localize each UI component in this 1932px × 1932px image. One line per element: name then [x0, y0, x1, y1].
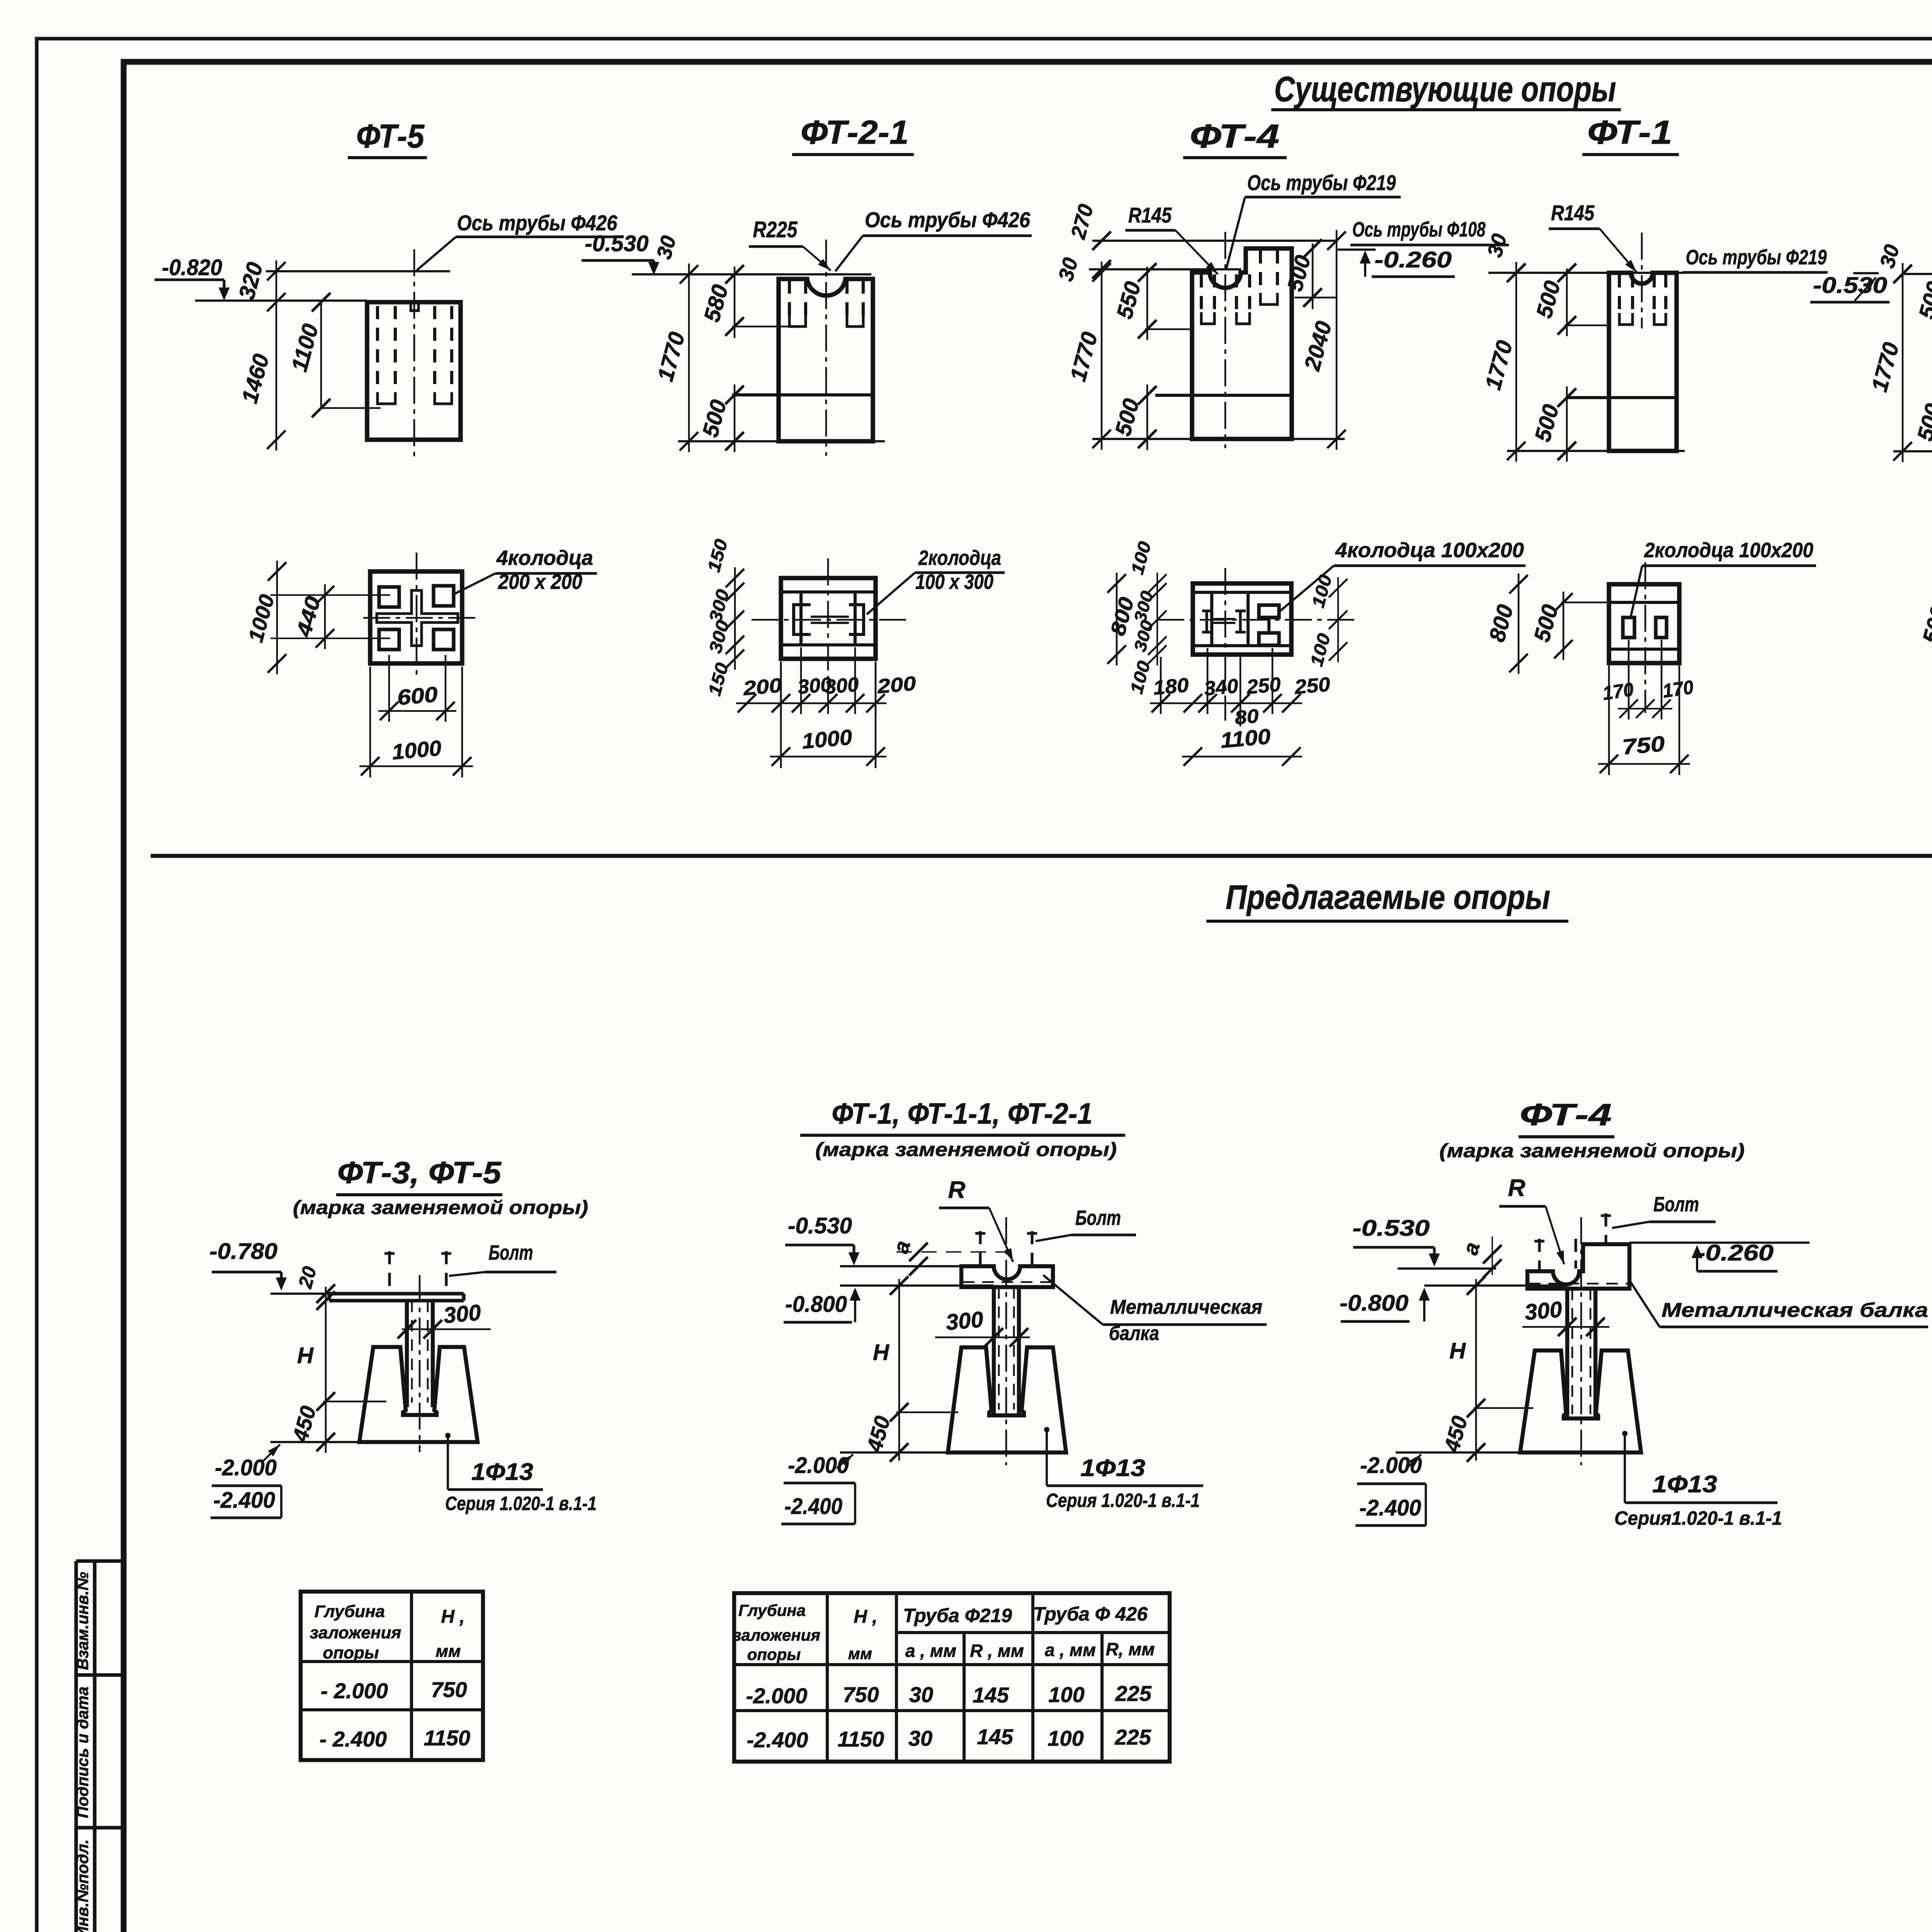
svg-text:а , мм: а , мм	[1045, 1640, 1096, 1660]
detail 1: foundation trapezoid	[359, 1347, 478, 1442]
svg-text:Ось трубы Ф219: Ось трубы Ф219	[1247, 170, 1396, 195]
svg-text:R225: R225	[753, 217, 798, 242]
svg-text:Труба Ф 426: Труба Ф 426	[1033, 1603, 1148, 1625]
FT-1 elevation: center line	[1641, 233, 1643, 328]
svg-text:-0.530: -0.530	[1813, 273, 1887, 298]
FT-2-1 elevation: anchor bolts (dashed)	[789, 281, 863, 327]
svg-text:2колодца 100х200: 2колодца 100х200	[1644, 539, 1813, 562]
svg-text:4колодца: 4колодца	[496, 546, 593, 570]
detail 2: foundation trapezoid	[948, 1347, 1066, 1452]
svg-text:Металлическая: Металлическая	[1110, 1296, 1262, 1318]
detail 3: center line	[1580, 1217, 1582, 1465]
FT-5 plan: slab outline	[370, 571, 462, 663]
svg-text:225: 225	[1114, 1725, 1151, 1749]
svg-text:250: 250	[1293, 673, 1331, 699]
svg-text:-2.400: -2.400	[747, 1728, 808, 1752]
svg-text:-0.260: -0.260	[1696, 1240, 1774, 1265]
detail 2: column top extension	[840, 1284, 994, 1287]
svg-text:-0.530: -0.530	[788, 1213, 852, 1238]
FT-2-1 plan: center lines	[827, 558, 829, 680]
svg-text:мм: мм	[435, 1642, 461, 1661]
svg-text:Глубина: Глубина	[315, 1602, 385, 1621]
svg-text:Н ,: Н ,	[441, 1607, 464, 1627]
FT-5 plan: well axis lines	[270, 594, 390, 596]
svg-text:ФТ-3, ФТ-5: ФТ-3, ФТ-5	[337, 1155, 502, 1190]
FT-4 plan: center lines	[1157, 619, 1354, 621]
detail 1: center line	[419, 1275, 421, 1452]
FT-5 elevation: foundation outline	[367, 302, 461, 440]
svg-text:ФТ-4: ФТ-4	[1520, 1097, 1612, 1132]
svg-text:-2.000: -2.000	[215, 1455, 277, 1480]
FT-1 plan: slab outline	[1609, 584, 1679, 663]
svg-text:1Ф13: 1Ф13	[471, 1459, 533, 1485]
svg-text:Ось трубы Ф108: Ось трубы Ф108	[1352, 218, 1486, 241]
svg-text:(марка заменяемой опоры): (марка заменяемой опоры)	[1439, 1140, 1745, 1162]
svg-text:ФТ-1: ФТ-1	[1587, 114, 1672, 151]
svg-text:170: 170	[1601, 679, 1635, 704]
detail 2: rebar mark 1Ф13	[1044, 1427, 1049, 1432]
svg-text:Болт: Болт	[489, 1241, 533, 1264]
detail 1: rebar mark 1Ф13	[445, 1433, 451, 1438]
svg-text:а , мм: а , мм	[905, 1641, 956, 1661]
detail 3: level line -0.260	[1629, 1242, 1810, 1244]
svg-text:Инв.№подл.: Инв.№подл.	[73, 1839, 92, 1932]
table 1 (FT-3, FT-5): frame	[301, 1592, 483, 1760]
svg-text:R: R	[948, 1177, 966, 1203]
svg-text:750: 750	[1621, 731, 1666, 759]
FT-4 plan: inner horizontal edges	[1193, 591, 1291, 594]
svg-text:-0.800: -0.800	[1340, 1291, 1408, 1316]
FT-2-1 elevation: dim 580 / 500	[734, 267, 736, 338]
FT-2-1 plan: dims left 150/300/300/150	[734, 567, 736, 670]
detail 3: level marks -2.000 / -2.400	[1406, 1454, 1421, 1468]
svg-text:340: 340	[1203, 675, 1239, 700]
FT-1 plan: center line	[1645, 562, 1646, 713]
detail 2: dim 300	[935, 1337, 1030, 1338]
FT-1-1 elevation: pipe axis / ground line	[1903, 273, 1932, 275]
svg-text:мм: мм	[848, 1645, 872, 1663]
FT-4 elevation: short level line	[1338, 248, 1376, 251]
FT-4 elevation: foundation outline stepped with notch	[1192, 248, 1292, 439]
detail 3: metal beam stepped with notch	[1527, 1244, 1629, 1289]
svg-text:30: 30	[909, 1682, 933, 1707]
svg-text:-2.000: -2.000	[1360, 1453, 1422, 1478]
FT-1 elevation: foundation outline with notch	[1609, 273, 1677, 451]
FT-1 elevation: dim 1770	[1515, 262, 1517, 462]
svg-text:300: 300	[442, 1300, 482, 1328]
FT-5 plan: center lines	[416, 553, 418, 675]
svg-text:600: 600	[396, 682, 439, 710]
FT-5 elevation: center line	[413, 249, 415, 460]
FT-2-1 elevation: footing top line	[732, 393, 873, 396]
detail 3: foundation trapezoid	[1520, 1350, 1641, 1452]
svg-text:Подпись и дата: Подпись и дата	[73, 1687, 92, 1818]
FT-4 elevation: dim 2040	[1336, 230, 1338, 450]
svg-text:H: H	[873, 1340, 889, 1365]
FT-2-1 plan: bottom dims 200/300/300/200	[780, 662, 782, 714]
FT-2-1 elevation: dashed pipe arc in notch	[810, 286, 843, 295]
FT-2-1 plan: dim 1000 bottom	[780, 662, 782, 768]
FT-2-1 elevation: pipe axis line	[632, 273, 871, 276]
svg-text:Существующие опоры: Существующие опоры	[1274, 70, 1616, 109]
FT-5 elevation: anchor bolts (dashed)	[378, 306, 452, 404]
FT-5 elevation: ground line	[195, 299, 367, 302]
svg-text:Ось трубы Ф426: Ось трубы Ф426	[865, 207, 1031, 232]
detail 1: anchor bolts above plate	[388, 1251, 391, 1294]
detail 1: socket inner lines	[400, 1347, 406, 1410]
FT-2-1 elevation: dim 1770	[688, 264, 690, 452]
FT-1 plan: dim 500	[1563, 592, 1565, 660]
detail 1: level marks -2.000 / -2.400	[263, 1444, 280, 1461]
FT-5 elevation: pipe axis line	[266, 270, 450, 272]
FT-2-1 plan: inner vertical edges	[799, 592, 803, 645]
horizontal divider between sections	[151, 854, 1932, 858]
svg-text:(марка заменяемой опоры): (марка заменяемой опоры)	[815, 1139, 1117, 1160]
svg-text:ФТ-2-1: ФТ-2-1	[801, 114, 909, 151]
FT-4 plan: inner vertical edges	[1210, 592, 1213, 646]
FT-4 elevation: center line	[1225, 232, 1226, 448]
svg-text:Ось трубы Ф219: Ось трубы Ф219	[1686, 246, 1827, 269]
FT-1 plan: inner horizontal edges	[1609, 601, 1679, 604]
svg-text:Предлагаемые опоры: Предлагаемые опоры	[1226, 878, 1550, 916]
FT-4 plan: bottom dims 180/340/250/250 + 80	[1160, 657, 1162, 714]
svg-text:-2.400: -2.400	[784, 1494, 842, 1519]
svg-text:300: 300	[945, 1307, 984, 1335]
svg-text:-2.000: -2.000	[788, 1453, 849, 1478]
detail 3: column below beam	[1565, 1289, 1569, 1419]
detail 2: level line -0.530	[840, 1265, 962, 1267]
svg-text:опоры: опоры	[323, 1643, 379, 1662]
svg-text:ФТ-1, ФТ-1-1, ФТ-2-1: ФТ-1, ФТ-1-1, ФТ-2-1	[832, 1097, 1093, 1130]
svg-text:Серия 1.020-1 в.1-1: Серия 1.020-1 в.1-1	[445, 1493, 597, 1514]
detail 2: bottom level line	[840, 1451, 948, 1454]
FT-2-1 plan: anchor bar between wells	[811, 616, 849, 618]
svg-text:4колодца 100х200: 4колодца 100х200	[1335, 539, 1524, 562]
detail 3: socket inner lines	[1561, 1350, 1566, 1413]
detail 1: top level line	[270, 1293, 336, 1295]
detail 3: dim 300	[1522, 1326, 1609, 1328]
FT-1-1 elevation: dim 1770	[1902, 263, 1904, 462]
FT-2-1 elevation: center line	[825, 240, 827, 456]
FT-1-1 elevation: bottom extension line	[1893, 450, 1932, 452]
FT-4 elevation: ground level line	[1089, 268, 1241, 270]
svg-text:Металлическая балка: Металлическая балка	[1662, 1299, 1928, 1321]
FT-4 elevation: dim 1770 left	[1101, 262, 1103, 450]
FT-1 plan: dim 800 left	[1518, 573, 1520, 674]
svg-text:-2.400: -2.400	[1359, 1495, 1421, 1520]
detail 2: socket inner lines	[986, 1347, 992, 1410]
FT-2-1 plan: inner horizontal edges	[781, 590, 876, 594]
FT-4 elevation: upper axis line	[1092, 240, 1338, 242]
FT-4 plan: bolt wells right (100x200)	[1259, 605, 1279, 617]
svg-text:180: 180	[1152, 674, 1190, 699]
detail 3: rebar mark 1Ф13	[1622, 1431, 1628, 1436]
detail 1: dim 300	[402, 1328, 491, 1330]
FT-2-1 elevation: bottom extension line	[678, 440, 885, 442]
FT-1 elevation: anchor bolts (dashed)	[1619, 274, 1666, 325]
FT-4 elevation: anchor bolts (dashed)	[1201, 250, 1277, 324]
svg-text:H: H	[297, 1343, 314, 1368]
svg-text:100: 100	[1048, 1682, 1084, 1707]
FT-1 plan: dims 170/170	[1628, 640, 1630, 719]
svg-text:ФТ-5: ФТ-5	[356, 118, 425, 155]
svg-text:Глубина: Глубина	[738, 1601, 806, 1619]
svg-text:R, мм: R, мм	[1106, 1639, 1155, 1659]
svg-text:- 2.400: - 2.400	[320, 1727, 387, 1751]
svg-text:-0.530: -0.530	[585, 231, 649, 256]
FT-2-1 plan: slab outline	[781, 578, 876, 659]
svg-text:1100: 1100	[1219, 724, 1272, 753]
FT-5 elevation: dim 1100	[320, 302, 322, 408]
FT-4 plan: I-beam stubs left	[1202, 611, 1212, 632]
detail 2: anchor bolt pins	[979, 1231, 982, 1266]
left stamp column boxes	[76, 1561, 124, 1932]
FT-2-1 plan: bolt wells 100x300 (brackets)	[794, 605, 811, 634]
svg-text:1150: 1150	[838, 1727, 884, 1751]
FT-4 elevation: bottom extension line	[1092, 438, 1345, 440]
svg-text:1000: 1000	[801, 725, 853, 753]
detail 2: level marks -2.000 / -2.400	[837, 1454, 853, 1468]
svg-text:225: 225	[1115, 1681, 1151, 1706]
svg-text:-0.780: -0.780	[209, 1239, 277, 1264]
svg-text:R145: R145	[1128, 203, 1172, 227]
svg-text:300: 300	[1524, 1297, 1563, 1325]
detail 3: level line -0.530	[1398, 1267, 1496, 1270]
FT-4 plan: dim 1100 bottom	[1182, 756, 1302, 758]
svg-text:- 2.000: - 2.000	[321, 1679, 388, 1703]
svg-text:1Ф13: 1Ф13	[1080, 1455, 1145, 1481]
FT-5 plan: cross anchor plate	[377, 590, 458, 646]
svg-text:заложения: заложения	[310, 1623, 401, 1642]
FT-4 plan: dim 800 far left	[1116, 573, 1118, 665]
FT-1 elevation: pipe axis / ground line	[1488, 272, 1685, 274]
svg-text:ФТ-4: ФТ-4	[1190, 118, 1279, 155]
svg-text:200: 200	[742, 674, 783, 700]
FT-1 plan: bolt wells 100x200	[1623, 617, 1634, 638]
FT-5 elevation: recess square on top	[411, 302, 418, 311]
FT-5 elevation: dim 320 / 1460	[276, 260, 277, 451]
svg-text:(марка заменяемой опоры): (марка заменяемой опоры)	[293, 1197, 588, 1218]
FT-4 plan: slab outline	[1193, 583, 1291, 655]
svg-text:-2.000: -2.000	[746, 1684, 808, 1708]
svg-text:H: H	[1449, 1338, 1466, 1364]
svg-text:-0.260: -0.260	[1374, 247, 1452, 272]
detail 2: dim H / 450	[898, 1279, 900, 1461]
detail 3: bottom level line	[1396, 1451, 1520, 1454]
svg-text:1150: 1150	[424, 1726, 470, 1750]
svg-text:заложения: заложения	[733, 1626, 820, 1644]
FT-4 plan: dims right 100/100	[1337, 577, 1339, 662]
detail 2: column below beam	[992, 1287, 996, 1414]
detail 1: precast column	[405, 1301, 409, 1407]
detail 3: anchor bolt pins	[1538, 1239, 1541, 1271]
svg-text:1Ф13: 1Ф13	[1652, 1471, 1717, 1498]
svg-text:опоры: опоры	[747, 1645, 801, 1663]
svg-text:Болт: Болт	[1653, 1193, 1699, 1216]
svg-text:Н ,: Н ,	[854, 1607, 877, 1627]
svg-text:200: 200	[876, 672, 917, 698]
FT-5 plan: dim 1000 left	[276, 561, 278, 674]
FT-1 plan: dim 750 bottom	[1608, 665, 1610, 775]
table 2 (FT-1 group): frame	[734, 1593, 1170, 1762]
svg-text:300: 300	[824, 673, 860, 698]
FT-5 plan: dim 1000 bottom	[369, 667, 371, 777]
detail 1: top steel plate	[329, 1292, 464, 1295]
FT-1 elevation: dim 500 upper / lower	[1566, 269, 1568, 336]
svg-text:R145: R145	[1551, 201, 1595, 225]
FT-5 plan: dim 440	[324, 584, 326, 649]
svg-text:145: 145	[977, 1725, 1013, 1749]
svg-text:-0.800: -0.800	[785, 1292, 847, 1317]
svg-text:30: 30	[908, 1726, 932, 1750]
svg-text:R: R	[1508, 1175, 1526, 1201]
detail 1: bottom level line	[270, 1441, 359, 1443]
detail 3: beam hidden line	[1529, 1283, 1628, 1285]
detail 3: column top extension	[1424, 1284, 1567, 1287]
detail 1: dim H / 450	[325, 1287, 327, 1453]
FT-4 elevation: inner vertical line	[1190, 272, 1194, 439]
FT-2-1 elevation: foundation outline with notch	[779, 279, 873, 441]
FT-4 elevation: dim 500 upper right	[1312, 243, 1314, 309]
svg-text:Труба Ф219: Труба Ф219	[903, 1605, 1012, 1626]
detail 2: metal beam with notch	[961, 1266, 1053, 1287]
svg-text:1000: 1000	[391, 736, 442, 764]
FT-1 elevation: bottom extension line	[1507, 450, 1685, 452]
svg-text:-0.530: -0.530	[1352, 1216, 1430, 1241]
FT-4 elevation: footing top line	[1155, 394, 1292, 397]
FT-4 plan: dims left 100/300/300/100	[1156, 573, 1158, 665]
svg-text:170: 170	[1661, 676, 1695, 702]
svg-text:750: 750	[431, 1677, 467, 1702]
svg-text:100: 100	[1048, 1726, 1083, 1750]
detail 2: beam hidden line	[963, 1281, 1052, 1283]
detail 3: dim H / 450	[1475, 1279, 1477, 1461]
FT-5 plan: bolt wells 200x200	[379, 586, 454, 650]
svg-text:Взам.инв.№: Взам.инв.№	[73, 1572, 92, 1670]
svg-text:R , мм: R , мм	[970, 1641, 1024, 1661]
svg-text:Серия 1.020-1 в.1-1: Серия 1.020-1 в.1-1	[1046, 1490, 1200, 1511]
FT-1 elevation: footing top line	[1567, 396, 1677, 399]
svg-text:-0.820: -0.820	[162, 255, 222, 280]
FT-4 elevation: dim 550 / 500	[1146, 267, 1148, 340]
FT-5 plan: dim 600	[388, 655, 390, 722]
svg-text:2колодца: 2колодца	[918, 546, 1001, 570]
svg-text:750: 750	[843, 1682, 879, 1707]
svg-text:250: 250	[1245, 673, 1282, 699]
svg-text:Болт: Болт	[1075, 1206, 1121, 1230]
svg-text:145: 145	[973, 1683, 1009, 1707]
svg-text:Серия1.020-1 в.1-1: Серия1.020-1 в.1-1	[1614, 1507, 1782, 1529]
svg-text:-2.400: -2.400	[213, 1488, 275, 1513]
detail 2: center line	[1005, 1217, 1007, 1465]
